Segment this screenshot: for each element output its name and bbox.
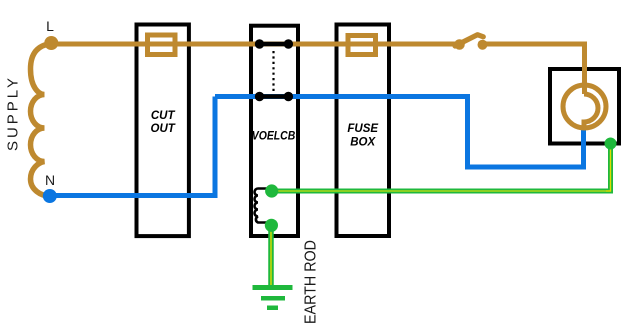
contact bar on neutral wire <box>255 92 293 101</box>
svg-text:BOX: BOX <box>350 137 376 149</box>
terminal N (blue dot) <box>43 189 57 203</box>
fuse box <box>337 25 390 237</box>
wire live L (brown) right segment into load <box>482 44 585 94</box>
fuse F2 in fuse box <box>348 36 376 55</box>
switch SW1 (brown) <box>454 35 487 50</box>
wire neutral N (blue) from N terminal up to VOELCB level <box>52 97 215 196</box>
label VOELCB <box>252 130 296 142</box>
svg-text:SUPPLY: SUPPLY <box>5 75 22 151</box>
supply coil (brown inductor) <box>31 44 52 197</box>
load lamp inner arc <box>584 94 598 130</box>
wire earth (green/yellow) from VOELCB coil down to earth rod <box>268 226 274 286</box>
label EARTH ROD (vertical) <box>303 240 320 324</box>
wire earth (green/yellow) from VOELCB coil to load box corner <box>273 146 611 191</box>
dotted mechanical linkage <box>272 51 274 92</box>
terminal L (brown dot) <box>44 36 58 50</box>
earth node dot top (green) <box>265 184 278 197</box>
trip coil (black) in VOELCB <box>255 189 272 223</box>
wire neutral N (blue) through VOELCB and FUSE BOX to load <box>215 97 584 168</box>
label L <box>46 18 54 34</box>
earth node dot bottom (green) <box>265 219 278 232</box>
svg-text:FUSE: FUSE <box>347 123 378 135</box>
svg-text:N: N <box>45 172 55 188</box>
label FUSE BOX <box>347 123 378 149</box>
label SUPPLY (vertical) <box>5 75 22 151</box>
svg-text:L: L <box>46 18 54 34</box>
voelcb box <box>251 26 298 236</box>
label CUT OUT <box>151 110 176 135</box>
svg-text:CUT: CUT <box>151 110 176 122</box>
svg-text:OUT: OUT <box>151 123 176 135</box>
wire live L (brown) left segment <box>52 42 459 47</box>
fuse F1 in cutout <box>148 35 176 55</box>
earth junction dot at load box corner (green) <box>605 138 617 150</box>
svg-text:VOELCB: VOELCB <box>252 130 296 142</box>
load box <box>550 69 619 144</box>
contact bar on live wire <box>255 39 293 48</box>
earth rod ground symbol (green bars) <box>253 285 293 310</box>
label N <box>45 172 55 188</box>
cutout box <box>137 25 189 237</box>
svg-text:EARTH ROD: EARTH ROD <box>303 240 320 324</box>
load lamp outer circle <box>563 85 606 128</box>
